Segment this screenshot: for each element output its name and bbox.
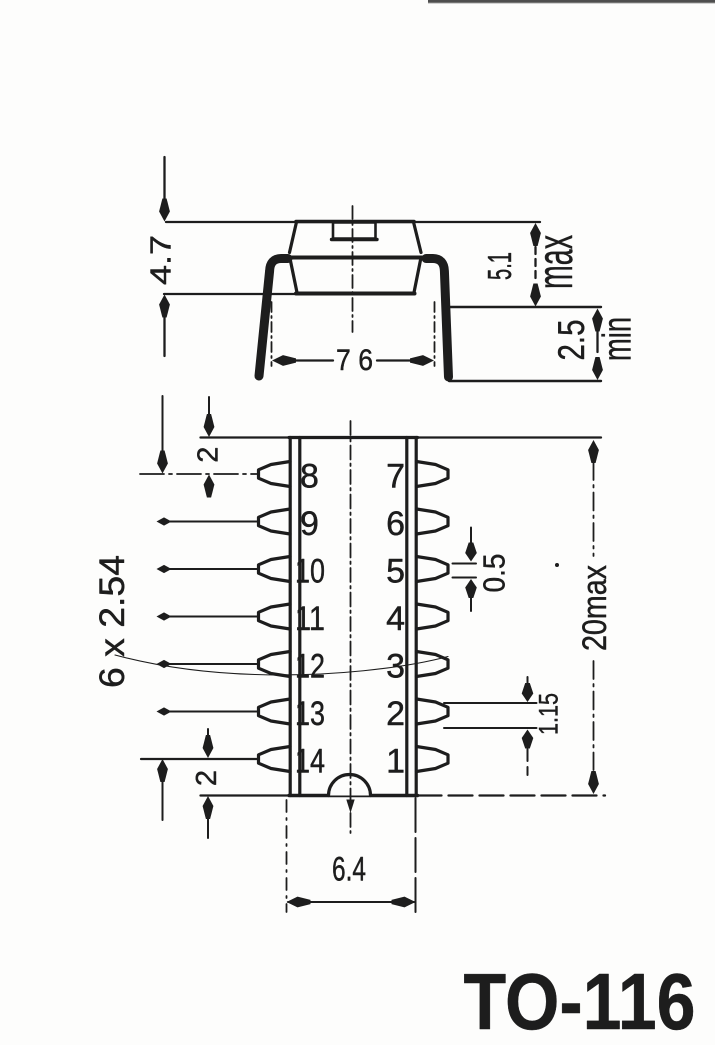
pin 4 (417, 604, 449, 629)
pin 2 (417, 699, 449, 724)
pin 10 (259, 557, 291, 582)
body left edge (290, 258, 297, 293)
pin 13 (259, 699, 291, 724)
pin 8 (259, 462, 291, 487)
lid top edge thick (296, 220, 414, 224)
step line right (449, 306, 601, 308)
seating plane line (164, 293, 297, 295)
dim 0.5 lower arrow (465, 579, 477, 598)
svg-text:0.5: 0.5 (477, 554, 512, 593)
top reference line (166, 221, 540, 223)
dim 7.6 right arrow (377, 359, 412, 361)
svg-text:max: max (527, 235, 583, 289)
dim 20max top arrow (588, 440, 599, 463)
svg-text:1: 1 (386, 743, 405, 781)
svg-text:6.4: 6.4 (332, 851, 366, 889)
pin 7 (417, 462, 449, 487)
dim 2 top down arrow (208, 397, 210, 415)
body top edge extensions (201, 436, 602, 438)
dim 5.1 arrows (530, 223, 541, 246)
pin 14 (259, 747, 291, 772)
dim 6.4 right extension (415, 798, 417, 914)
dim 1.15 lower arrow (522, 730, 534, 749)
body right edge (414, 258, 421, 293)
dim 6.4 line with arrows (288, 901, 414, 903)
svg-text:7 6: 7 6 (336, 344, 373, 377)
dim 6.4 left extension (286, 800, 288, 912)
dim 0.5 upper arrow (470, 528, 472, 544)
dim 20max bottom arrow (588, 771, 599, 794)
svg-text:1.15: 1.15 (534, 693, 564, 735)
pin 6 (417, 509, 449, 534)
svg-text:2: 2 (386, 695, 405, 733)
speck dot (555, 563, 559, 567)
body right outer edge (415, 438, 418, 796)
centerline side view (352, 206, 354, 332)
svg-text:14: 14 (295, 743, 325, 781)
dim 2.5 arrows (592, 309, 603, 332)
dim 2 bottom down arrow (207, 729, 209, 737)
pin 8 centerline (140, 473, 258, 475)
dim 20max line (593, 462, 595, 556)
svg-text:8: 8 (300, 458, 319, 496)
dim 0.5 extension ticks (453, 563, 477, 565)
svg-text:2: 2 (193, 447, 225, 463)
svg-text:4.7: 4.7 (146, 235, 178, 285)
svg-text:6 x 2.54: 6 x 2.54 (93, 555, 132, 688)
pin 9 leader arrow (157, 517, 172, 525)
svg-text:min: min (596, 317, 640, 361)
svg-text:2: 2 (191, 770, 223, 786)
lid left edge (290, 222, 297, 253)
dim 6x2.54 bottom arrow (157, 759, 168, 782)
center small arrow below base (346, 800, 354, 814)
right lead (426, 259, 449, 378)
dim 4.7 upper extension and arrow (163, 157, 165, 201)
pin 11 leader arrow (157, 612, 172, 620)
svg-text:5: 5 (386, 553, 405, 591)
pin 11 (259, 604, 291, 629)
leader curve from 6x2.54 (115, 655, 448, 675)
svg-text:7: 7 (386, 458, 405, 496)
body bottom edge extension left (201, 794, 290, 796)
svg-text:13: 13 (295, 695, 325, 733)
svg-text:20max: 20max (576, 565, 614, 651)
right lead centerline (434, 302, 436, 366)
body bottom edge (289, 794, 418, 797)
pin 1 (417, 747, 449, 772)
dim 2 bottom up arrow (203, 796, 214, 819)
svg-text:9: 9 (300, 505, 319, 543)
lid right edge (414, 222, 422, 253)
body left outer edge (289, 438, 292, 796)
pin 13 leader arrow (157, 707, 172, 715)
svg-text:11: 11 (295, 600, 325, 638)
dim 6x2.54 top arrow (162, 396, 164, 451)
dim 2 top up arrow (204, 475, 215, 498)
svg-text:4: 4 (386, 600, 405, 638)
pin 5 (417, 557, 449, 582)
body left inner edge (298, 438, 301, 796)
pin 9 (259, 509, 291, 534)
body bottom edge extension right dashed (418, 794, 606, 796)
pin 12 (259, 652, 291, 677)
left lead centerline (271, 302, 273, 366)
pcb line bottom right (449, 380, 601, 382)
index notch semicircle (329, 775, 371, 796)
svg-text:TO-116: TO-116 (464, 957, 696, 1045)
body bottom edge (296, 292, 415, 296)
body right inner edge (405, 438, 408, 796)
dim 1.15 upper arrow (527, 677, 529, 684)
pin 10 leader arrow (157, 565, 172, 573)
left lead (259, 259, 288, 377)
svg-text:6: 6 (386, 505, 405, 543)
svg-text:12: 12 (295, 648, 325, 686)
svg-text:10: 10 (295, 553, 325, 591)
scan edge bar top right (428, 0, 715, 4)
pin 12 leader arrow (157, 660, 172, 668)
dim 1.15 extension lines (444, 702, 537, 704)
pin 14 centerline (141, 758, 258, 760)
svg-text:5.1: 5.1 (481, 252, 518, 280)
body top edge (289, 436, 418, 439)
lid notch (333, 223, 376, 239)
pin 3 (417, 652, 449, 677)
shoulder line (276, 256, 434, 260)
svg-text:2.5: 2.5 (551, 320, 592, 361)
centerline top view (350, 421, 352, 833)
dim 4.7 lower arrow (159, 295, 170, 318)
dim 7.6 left arrow (272, 355, 296, 366)
